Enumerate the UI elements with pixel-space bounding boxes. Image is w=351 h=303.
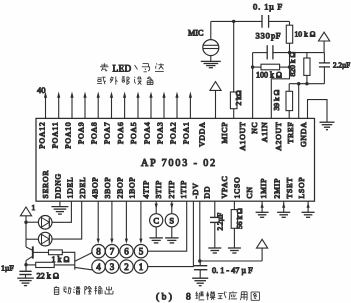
wire key5 to PIT pin <box>148 201 187 251</box>
svg-text:6: 6 <box>124 247 129 257</box>
resistor R2 value label 10kΩ <box>295 29 316 38</box>
wire emitter to R7 <box>26 264 36 266</box>
resistor R3 100k <box>261 64 280 70</box>
wire GNDD stub <box>59 201 61 206</box>
svg-text:MICP: MICP <box>220 122 229 144</box>
wire S key to ground <box>171 227 173 238</box>
key switch C <box>150 214 163 227</box>
ground GNDA <box>320 122 335 130</box>
svg-text:8: 8 <box>186 292 191 302</box>
resistor R3 value label 100kΩ <box>256 71 282 80</box>
svg-text:3TIP: 3TIP <box>154 180 163 199</box>
wire emitter down <box>25 261 27 272</box>
wire D1 to LED1 pin <box>52 201 71 222</box>
wire MIC node horizontal <box>211 20 262 22</box>
pin number 40 label <box>37 85 46 95</box>
wire 100k left <box>253 66 261 68</box>
svg-text:4: 4 <box>96 262 101 272</box>
wire 10k top <box>289 21 291 25</box>
svg-text:10 k Ω: 10 k Ω <box>295 29 316 38</box>
svg-text:GNDA: GNDA <box>299 122 308 147</box>
svg-text:LED: LED <box>113 63 132 73</box>
transistor Q1 base lead to R6 <box>33 251 49 253</box>
capacitor C3 value label 2.2µF <box>333 61 350 69</box>
svg-text:DDNG: DDNG <box>53 173 62 198</box>
U1 top pin name labels POA12..GNDA <box>37 121 308 150</box>
svg-text:0. 1 - 47 µ F: 0. 1 - 47 µ F <box>212 266 253 275</box>
wire GNDA pin to ground <box>308 100 328 122</box>
junction emitter node <box>24 263 27 266</box>
resistor R7 22k <box>36 262 55 267</box>
svg-text:1µF: 1µF <box>1 263 14 272</box>
svg-text:A2OUT: A2OUT <box>274 122 283 151</box>
wire R1 to MICP pin <box>233 109 235 119</box>
wire CAPV pin to R8 <box>233 201 235 209</box>
svg-text:POA4: POA4 <box>142 122 151 144</box>
resistor R6 value label 1kΩ <box>52 255 70 264</box>
ground under PIM2 <box>277 212 290 217</box>
svg-text:2: 2 <box>124 262 129 272</box>
wire R6 to key junction <box>62 252 75 269</box>
wire S key to pin with arrow <box>170 201 173 214</box>
capacitor C5 0.1-47uF plates <box>194 266 207 270</box>
svg-text:C: C <box>153 216 159 226</box>
wire 10k bottom to node <box>289 43 291 52</box>
wire C5 to ground <box>199 270 201 278</box>
svg-text:1TIP: 1TIP <box>179 180 188 199</box>
svg-text:POA1: POA1 <box>182 122 191 144</box>
svg-text:POA3: POA3 <box>155 122 164 144</box>
wire R8 to ground <box>233 228 235 247</box>
wire node vertical segment <box>289 53 291 68</box>
svg-text:pF: pF <box>271 31 281 41</box>
power symbol (triangle) on VDDA <box>210 82 221 91</box>
capacitor C4 1uF plates <box>19 271 31 274</box>
svg-text:8: 8 <box>96 247 101 257</box>
microphone MIC stem <box>210 21 212 39</box>
svg-text:POA7: POA7 <box>103 122 112 144</box>
wire POSL pin to ground with arrow <box>307 201 310 212</box>
svg-text:SEROR: SEROR <box>41 170 50 199</box>
resistor R1 value label 2kΩ <box>234 90 243 105</box>
microphone label MIC <box>188 28 204 37</box>
svg-text:3BOP: 3BOP <box>103 177 112 199</box>
key switch S <box>165 214 178 227</box>
wire R7 to key junction <box>54 264 75 266</box>
svg-text:1MIP: 1MIP <box>259 178 268 199</box>
svg-text:5: 5 <box>139 247 144 257</box>
junction 100k right node <box>288 65 291 68</box>
wire 100k right <box>280 66 290 68</box>
VDDA pin wire <box>215 90 217 118</box>
svg-text:39 k Ω: 39 k Ω <box>272 89 281 110</box>
wire MIC to ground <box>210 56 212 62</box>
wire triangle stem <box>261 248 263 261</box>
resistor R7 value label 22kΩ <box>37 271 59 280</box>
wire to LED D2 <box>26 238 38 240</box>
svg-text:22 k Ω: 22 k Ω <box>37 271 59 280</box>
wire DD pin to C6 <box>214 201 216 217</box>
svg-text:A1OUT: A1OUT <box>238 122 247 151</box>
ground under R8 <box>228 248 241 253</box>
svg-text:0. 1: 0. 1 <box>253 1 269 11</box>
svg-text:(b): (b) <box>156 291 174 302</box>
junction TREF node <box>297 82 300 85</box>
svg-text:4TIP: 4TIP <box>141 180 150 199</box>
svg-text:2.2µF: 2.2µF <box>215 213 224 231</box>
caption auto-clear output <box>54 286 113 294</box>
wire cap to 10k top <box>269 20 290 22</box>
svg-text:VPAC: VPAC <box>220 176 229 199</box>
capacitor C1 value label 0.1µF <box>253 1 283 11</box>
op-amp/voice chip U1 AP7003-02 body <box>36 118 315 201</box>
ground under MIC <box>201 61 221 67</box>
resistor R4 value label 39kΩ <box>272 89 281 110</box>
resistor R4 39k <box>286 91 293 110</box>
junction LED supply node <box>24 221 27 224</box>
power symbol (triangle) near OSC1 <box>257 239 268 248</box>
svg-text:-DV: -DV <box>191 182 200 198</box>
wire A1OUT column <box>252 53 254 119</box>
transistor Q1 emitter lead <box>26 256 33 260</box>
capacitor C5 value label 0.1-47µF <box>212 266 253 275</box>
ground under S key <box>165 238 179 243</box>
ground under POSL <box>302 212 315 217</box>
LED D2 <box>38 232 52 246</box>
wire 39k to A2OUT pin <box>288 111 290 119</box>
svg-text:2MIP: 2MIP <box>272 178 281 199</box>
svg-text:2TIP: 2TIP <box>167 180 176 199</box>
wire diagonal key4 to junction <box>75 267 93 270</box>
wire C6 to ground <box>214 222 216 247</box>
ground under C4 <box>17 278 34 286</box>
wire PIM2 pin to ground with arrow <box>282 201 285 212</box>
transistor Q1 base bar <box>32 246 34 258</box>
LED D1 <box>38 216 52 230</box>
svg-text:1: 1 <box>139 262 144 272</box>
svg-text:820 k Ω: 820 k Ω <box>288 52 297 77</box>
wire jog to A1IN <box>271 67 289 118</box>
wire MICP vertical upper <box>233 21 235 92</box>
ground under C key <box>149 238 163 243</box>
capacitor C6 2.2uF plates <box>210 217 220 222</box>
svg-text:POA8: POA8 <box>89 122 98 144</box>
U1 part number label AP7003-02 <box>141 158 217 169</box>
key switches 8 7 6 5 <box>92 245 148 258</box>
svg-text:A1IN: A1IN <box>260 122 269 143</box>
wire TREF pin <box>298 84 300 119</box>
U1 bottom pin name labels RORES..POSL <box>41 170 306 199</box>
svg-text:2DEL: 2DEL <box>78 177 87 199</box>
svg-text:330: 330 <box>256 31 271 41</box>
wire 820k bottom <box>306 75 308 83</box>
svg-text:MIC: MIC <box>188 28 204 37</box>
svg-text:POA5: POA5 <box>129 122 138 144</box>
annotation text: or external devices <box>97 77 153 85</box>
resistor R1 2k <box>230 92 237 109</box>
svg-text:POA6: POA6 <box>116 121 125 143</box>
capacitor C4 value label 1µF <box>1 263 14 272</box>
wires with arrows POB4..POB1 to keys <box>97 201 143 244</box>
ground GNDD <box>51 207 68 215</box>
wire 2.2uF bottom stub <box>323 67 325 84</box>
svg-text:µ F: µ F <box>269 1 283 11</box>
power symbol (triangle) node 1 <box>20 207 31 216</box>
wire diagonal key8 to junction <box>75 252 93 261</box>
capacitor C6 value label 2.2µF <box>215 213 224 231</box>
capacitor C1 0.1uF plates <box>262 15 269 28</box>
svg-text:56 k Ω: 56 k Ω <box>235 208 244 229</box>
wire C key to pin with arrow <box>155 201 158 214</box>
resistor R5 value label 820kΩ <box>288 52 297 77</box>
resistor R8 value label 56kΩ <box>235 208 244 229</box>
svg-text:POA2: POA2 <box>168 122 177 144</box>
wire 820k top <box>306 53 308 58</box>
wire C4 to ground <box>25 275 27 278</box>
wire VD- pin down <box>199 201 201 261</box>
resistor R8 56k <box>231 210 237 229</box>
svg-text:S: S <box>169 216 174 226</box>
ground under C5 <box>192 278 208 286</box>
capacitor C2 330pF plates <box>267 45 273 59</box>
caption (b) <box>156 291 174 302</box>
svg-text:TREF: TREF <box>286 122 295 144</box>
svg-text:AP 7003 - 02: AP 7003 - 02 <box>141 158 217 169</box>
svg-text:DD: DD <box>203 186 212 199</box>
wires with arrows from POA12..POA1 to external devices <box>44 92 192 119</box>
svg-text:2BOP: 2BOP <box>115 177 124 199</box>
svg-text:TSET: TSET <box>285 177 294 199</box>
svg-text:1CSO: 1CSO <box>232 177 241 199</box>
junction A1OUT at 100k <box>251 65 254 68</box>
junction VD- node <box>198 259 201 262</box>
svg-text:2 kΩ: 2 kΩ <box>234 90 243 105</box>
svg-text:NC: NC <box>250 122 259 134</box>
wire VD- node to OSC triangle <box>200 260 262 262</box>
wire feedback node horizontal upper <box>253 52 324 54</box>
resistor R5 820k <box>304 58 310 75</box>
caption 8-key mode application diagram <box>186 291 259 302</box>
wire 2.2uF top stub <box>323 53 325 63</box>
wire key1 to PIT pin <box>148 201 194 266</box>
capacitor C2 value label 330pF <box>256 31 281 41</box>
key switches 4 3 2 1 <box>92 260 148 273</box>
svg-text:VDDA: VDDA <box>197 122 206 147</box>
svg-text:POA9: POA9 <box>76 122 85 144</box>
junction on MIC node <box>232 20 235 23</box>
annotation text: to LED / motor <box>100 63 164 73</box>
ground under C6 <box>208 248 221 253</box>
resistor R2 10k <box>286 25 292 43</box>
wire PIM1 pin to ground with arrow <box>261 201 264 212</box>
resistor R6 1k <box>49 250 63 255</box>
svg-text:3: 3 <box>110 262 115 272</box>
svg-text:LSOP: LSOP <box>297 177 306 199</box>
node 1 label <box>32 203 36 212</box>
transistor Q1 collector lead <box>26 247 33 250</box>
power symbol (triangle) top right <box>319 32 330 41</box>
wire C key to ground <box>155 227 157 238</box>
junction 820k bottom <box>305 82 308 85</box>
ground under PIM1 <box>256 212 269 217</box>
svg-text:2.2µF: 2.2µF <box>333 61 350 69</box>
svg-text:4BOP: 4BOP <box>91 177 100 199</box>
svg-text:CN: CN <box>245 186 254 198</box>
svg-text:POA12: POA12 <box>37 122 46 149</box>
svg-text:40: 40 <box>37 85 46 95</box>
wire supply node down <box>25 222 27 247</box>
wire D2 to LED2 pin <box>52 201 82 239</box>
svg-text:1DEL: 1DEL <box>66 177 75 199</box>
svg-text:1: 1 <box>32 203 36 212</box>
svg-text:1BOP: 1BOP <box>128 177 137 199</box>
capacitor C3 2.2uF plates <box>319 63 330 67</box>
microphone MIC symbol <box>203 40 219 56</box>
wire lower node to 39k <box>288 84 290 92</box>
wire VD- node to C5 <box>199 261 201 266</box>
wire triangle to node <box>323 41 325 53</box>
svg-text:POA11: POA11 <box>50 122 59 149</box>
wire lower node horizontal <box>289 83 324 85</box>
wire triangle-1 stem <box>25 216 27 222</box>
svg-text:POA10: POA10 <box>63 122 72 149</box>
wire to LED D1 <box>26 221 38 223</box>
svg-text:7: 7 <box>110 247 115 257</box>
junction upper node at A2OUT column <box>288 51 291 54</box>
